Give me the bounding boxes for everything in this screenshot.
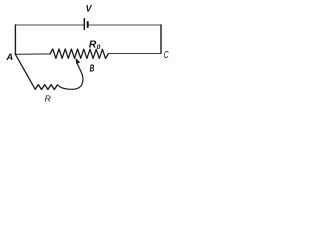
resistor R zigzag bbox=[35, 85, 57, 90]
svg-text:C: C bbox=[164, 50, 169, 61]
wire A diagonal down bbox=[15, 54, 35, 89]
wire left vertical bbox=[14, 25, 16, 54]
wiper arrowhead at B bbox=[76, 59, 80, 64]
svg-text:V: V bbox=[86, 4, 93, 14]
wire top-right segment bbox=[88, 24, 161, 26]
wire R0 to C bbox=[109, 53, 162, 55]
wire right vertical bbox=[160, 25, 162, 53]
wire top-left segment bbox=[15, 24, 84, 26]
svg-text:R: R bbox=[45, 94, 51, 104]
wiper arrow curve from R to B bbox=[57, 64, 83, 89]
battery V short plate bbox=[87, 22, 89, 27]
svg-text:0: 0 bbox=[97, 44, 101, 51]
svg-text:B: B bbox=[90, 63, 95, 74]
resistor R0 zigzag bbox=[50, 49, 109, 58]
battery V long plate bbox=[83, 19, 85, 30]
wire A to resistor R0 bbox=[15, 53, 50, 55]
svg-text:A: A bbox=[5, 51, 13, 62]
